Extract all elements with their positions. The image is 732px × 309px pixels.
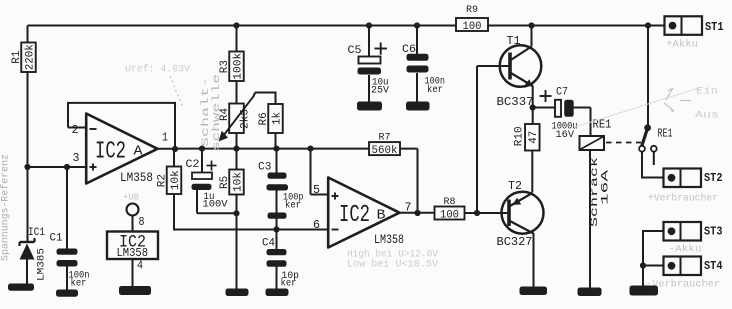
wire T1 emitter down — [532, 86, 534, 108]
node C4 tap — [273, 226, 279, 232]
svg-text:ST2: ST2 — [704, 171, 723, 185]
wire C6 to ground — [416, 73, 418, 102]
svg-text:+Verbraucher: +Verbraucher — [648, 193, 718, 205]
wire left rail R1 top — [27, 26, 29, 43]
wire IC2A output stub — [157, 148, 175, 150]
svg-text:R8: R8 — [444, 196, 456, 208]
wire C3 to pin6 net — [276, 219, 278, 230]
svg-text:6: 6 — [313, 219, 320, 232]
node T1 emitter — [530, 104, 536, 110]
resistor R2 10k — [157, 167, 182, 195]
svg-text:7: 7 — [405, 202, 412, 215]
node rail-ST1 — [645, 22, 651, 28]
svg-text:100: 100 — [463, 21, 482, 33]
node C2-R5 ground — [233, 210, 239, 216]
node IC2B output — [414, 210, 420, 216]
connector ST1 — [665, 16, 724, 35]
wire ST3 to ground node — [643, 231, 664, 286]
connector ST4 — [664, 257, 723, 276]
wire ground node to ST4 — [643, 265, 664, 267]
wire R3 top — [236, 26, 238, 52]
wire relay coil to ground — [589, 150, 591, 288]
svg-text:R5: R5 — [219, 176, 231, 189]
svg-text:LM358: LM358 — [117, 247, 149, 260]
ground ST3-ST4 — [630, 286, 659, 296]
wire rail to switch common — [647, 26, 649, 127]
svg-text:C1: C1 — [50, 233, 63, 245]
annotation Ein — [696, 86, 718, 98]
svg-text:C3: C3 — [258, 162, 272, 174]
ground R5 — [226, 289, 249, 297]
svg-text:Low bei U<10.5V: Low bei U<10.5V — [347, 259, 439, 271]
svg-text:ker: ker — [285, 199, 301, 211]
wire R10 top — [532, 108, 534, 125]
wire base node vertical — [476, 66, 478, 213]
wire R5 bottom to ground — [236, 195, 238, 289]
wire R7 right to output node — [400, 149, 418, 213]
capacitor C5 10u 25V — [348, 43, 390, 97]
annotation Schalt-schwelle — [200, 74, 223, 151]
resistor R6 1k — [258, 104, 283, 133]
node C2 tap — [199, 146, 205, 152]
annotation Uref — [125, 64, 191, 76]
svg-text:IC2: IC2 — [95, 139, 126, 166]
svg-text:RE1: RE1 — [658, 128, 673, 141]
ground C1 — [56, 290, 78, 297]
capacitor C6 100n — [402, 44, 445, 96]
capacitor C7 1000u 16V — [540, 87, 578, 141]
wire top supply rail right segment — [488, 25, 665, 27]
resistor R8 100 — [435, 196, 465, 221]
svg-text:100k: 100k — [232, 52, 244, 79]
svg-text:T2: T2 — [508, 179, 522, 193]
svg-text:R6: R6 — [258, 112, 270, 125]
svg-text:BC337: BC337 — [497, 96, 534, 109]
svg-text:ST4: ST4 — [704, 259, 723, 273]
svg-text:-Akku: -Akku — [669, 244, 702, 256]
label -Verbraucher — [646, 279, 720, 291]
svg-text:C5: C5 — [348, 45, 362, 57]
wire R3 to R4 — [236, 81, 238, 104]
svg-text:1k: 1k — [271, 112, 283, 125]
svg-text:Spannungs-Referenz: Spannungs-Referenz — [0, 154, 12, 261]
wire IC1 to ground — [26, 259, 28, 284]
annotation Aus — [695, 111, 719, 122]
svg-text:ker: ker — [281, 277, 297, 289]
capacitor C2 1u 100V — [186, 159, 229, 211]
wire T2 collector to ground — [533, 233, 535, 287]
svg-text:2: 2 — [72, 124, 79, 137]
wire IC2B output to R8 — [399, 212, 435, 214]
annotation crease line — [575, 87, 702, 127]
svg-text:C7: C7 — [556, 87, 568, 99]
wire pin5 branch — [311, 149, 329, 195]
svg-text:3: 3 — [73, 152, 80, 165]
IC2 power pins block — [107, 192, 158, 287]
svg-text:Aus: Aus — [695, 111, 719, 122]
ground IC1 — [8, 284, 34, 291]
wire R5 top — [236, 149, 238, 170]
svg-text:LM358: LM358 — [120, 171, 153, 185]
wire R8 to base node — [465, 212, 478, 214]
svg-text:16A: 16A — [600, 169, 612, 205]
capacitor C3 100p — [258, 162, 304, 219]
relay coil RE1 Schrack 16A — [580, 119, 612, 228]
node C1 tap — [64, 164, 70, 170]
wire IC2A output net horizontal — [175, 148, 370, 150]
connector ST3 — [664, 222, 723, 241]
node pin5 tap — [307, 146, 313, 152]
wire T1 base — [477, 65, 510, 67]
wire IC2A feedback up — [67, 102, 176, 149]
node R6-C3 — [273, 146, 279, 152]
label +Verbraucher — [648, 193, 718, 205]
ground C5 — [357, 102, 382, 111]
wire C4 top — [276, 230, 278, 250]
wire C2 top branch — [201, 149, 203, 173]
op-amp IC2B LM358 — [313, 178, 412, 248]
svg-text:100: 100 — [440, 209, 459, 221]
svg-text:47: 47 — [528, 131, 540, 144]
wire C1 branch — [66, 167, 68, 249]
ground RE1 — [578, 288, 602, 297]
svg-text:ker: ker — [71, 278, 87, 290]
wire R4 wiper to R6 — [254, 93, 276, 105]
svg-text:T1: T1 — [507, 34, 521, 48]
svg-text:5: 5 — [313, 184, 320, 197]
resistor R9 100 — [456, 4, 488, 33]
resistor R5 10k — [219, 170, 244, 195]
transistor T1 BC337 — [497, 34, 542, 109]
wire C4 to ground — [276, 267, 278, 289]
op-amp IC2A LM358 — [72, 114, 169, 185]
svg-text:schwelle: schwelle — [211, 74, 223, 151]
wire T2 base — [477, 212, 509, 214]
node base drive — [474, 210, 480, 216]
wire C7 to relay coil — [574, 108, 591, 137]
wire unused contact stub — [653, 152, 655, 166]
node R4-R5 — [233, 146, 239, 152]
svg-text:8: 8 — [139, 216, 145, 229]
svg-text:Ein: Ein — [696, 86, 718, 98]
annotation High/Low — [347, 249, 439, 271]
wire C6 branch — [416, 26, 418, 55]
wire rail to ST1 — [648, 25, 664, 27]
node rail-C6 — [414, 22, 420, 28]
wire C5 to ground — [368, 75, 370, 102]
annotation Spannungs-Referenz — [0, 154, 12, 261]
svg-text:100V: 100V — [203, 199, 229, 211]
node rail-R3 — [233, 22, 239, 28]
resistor R3 100k — [219, 52, 244, 82]
node rail-C5 — [366, 22, 372, 28]
transistor T2 BC327 — [497, 179, 544, 249]
wire top supply rail left segment — [28, 25, 457, 27]
annotation switch arrows — [664, 88, 691, 111]
node +input left rail — [24, 164, 30, 170]
annotation leader dotted — [170, 76, 183, 107]
wire pin6 net horizontal — [173, 229, 328, 231]
label +Akku — [666, 39, 698, 51]
svg-text:C6: C6 — [402, 44, 416, 56]
svg-text:4: 4 — [137, 260, 143, 273]
svg-text:Uref: 4.03V: Uref: 4.03V — [125, 64, 191, 76]
wire R2 to pin6 net — [173, 194, 175, 230]
svg-text:ST1: ST1 — [705, 20, 724, 34]
label -Akku — [669, 244, 702, 256]
wire C1 to ground — [66, 266, 68, 290]
svg-text:A: A — [134, 145, 144, 160]
wire +input horizontal to IC2A pin3 — [28, 166, 88, 168]
svg-text:R3: R3 — [219, 60, 231, 73]
svg-text:LM358: LM358 — [374, 233, 404, 247]
svg-text:B: B — [377, 209, 386, 224]
wire left rail R1 bottom to +input node — [27, 72, 29, 167]
resistor R1 220k — [11, 43, 36, 73]
ground C6 — [406, 102, 430, 111]
ground C4 — [266, 289, 289, 297]
ground T2 — [520, 287, 548, 296]
svg-text:IC2: IC2 — [339, 202, 370, 229]
svg-text:1: 1 — [162, 132, 168, 145]
svg-text:BC327: BC327 — [497, 236, 533, 249]
svg-text:ker: ker — [427, 84, 443, 96]
node rail-T1 collector — [528, 22, 534, 28]
wire R10 to T2 emitter — [531, 151, 533, 193]
relay switch RE1 — [639, 124, 672, 151]
svg-text:C2: C2 — [186, 159, 200, 171]
node IC2A output — [172, 146, 178, 152]
svg-text:560k: 560k — [372, 145, 398, 157]
svg-text:16V: 16V — [556, 129, 575, 141]
svg-text:10k: 10k — [170, 170, 182, 190]
svg-text:25V: 25V — [371, 85, 390, 97]
svg-text:220k: 220k — [24, 44, 36, 70]
wire R4 to out net — [236, 133, 238, 149]
capacitor C4 10p — [262, 237, 299, 289]
trimmer R4 2k5 — [219, 95, 255, 142]
resistor R7 560k — [369, 132, 400, 157]
wire +input node to IC1 — [27, 167, 29, 242]
svg-text:2k5: 2k5 — [240, 109, 252, 129]
svg-text:LM385: LM385 — [36, 248, 48, 281]
svg-text:IC1: IC1 — [28, 227, 45, 239]
wire R6 to out net — [275, 133, 277, 149]
wire T1 collector to rail — [531, 26, 533, 47]
wire relay dashed link — [606, 142, 641, 144]
wire C5 branch — [368, 26, 370, 57]
node ST3-ST4 ground — [640, 262, 646, 268]
wire C3 top — [276, 149, 278, 173]
resistor R10 47 — [513, 124, 540, 151]
svg-text:R10: R10 — [513, 126, 525, 146]
ground IC2 power — [119, 286, 151, 295]
wire C2 bottom to gnd node — [197, 189, 237, 213]
wire emitter node to C7 — [533, 107, 555, 109]
svg-text:+Akku: +Akku — [666, 39, 698, 51]
svg-text:ST3: ST3 — [704, 225, 723, 239]
svg-text:10k: 10k — [232, 172, 244, 192]
capacitor C1 100n — [50, 233, 90, 290]
svg-text:R9: R9 — [466, 4, 478, 16]
wire C3 mid — [276, 191, 278, 213]
svg-text:+UB: +UB — [123, 192, 139, 203]
wire IC2A output to R2 — [173, 149, 175, 167]
wire switch contact to ST2 — [642, 152, 664, 178]
svg-text:R1: R1 — [11, 50, 23, 64]
zener diode IC1 LM385 — [20, 227, 48, 281]
svg-text:R7: R7 — [379, 132, 391, 144]
svg-text:C4: C4 — [262, 237, 275, 249]
svg-text:R2: R2 — [157, 174, 169, 187]
connector ST2 — [664, 169, 723, 188]
